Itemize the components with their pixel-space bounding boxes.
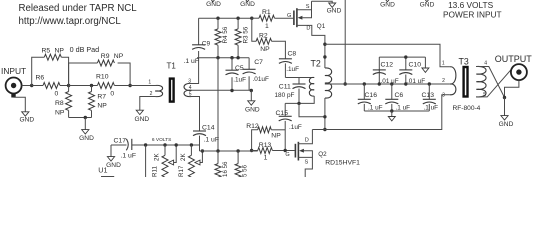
T3 core [464, 67, 468, 97]
wire R8 R7 common [69, 117, 92, 119]
Q1 drain lead [297, 25, 325, 57]
svg-text:.1uF: .1uF [286, 66, 299, 73]
svg-text:T3: T3 [459, 57, 469, 67]
svg-text:C14: C14 [202, 124, 215, 131]
svg-text:2K: 2K [154, 153, 161, 161]
svg-text:6 VOLTS: 6 VOLTS [152, 137, 171, 143]
resistor R4 [216, 17, 219, 20]
svg-text:R8: R8 [55, 100, 64, 107]
svg-text:Q1: Q1 [317, 23, 326, 30]
svg-text:R13: R13 [259, 142, 272, 149]
svg-text:.1uF: .1uF [289, 124, 302, 131]
wire Q1 source to gnd [312, 1, 333, 3]
svg-text:GND: GND [245, 106, 260, 113]
T2 secondary coil [309, 77, 314, 96]
svg-text:16 56: 16 56 [222, 161, 229, 177]
ground C17 [110, 145, 112, 157]
svg-text:0: 0 [55, 91, 59, 98]
svg-text:5 56: 5 56 [242, 164, 249, 177]
node aux vertical [144, 143, 147, 146]
node A input pad [30, 84, 33, 87]
ground pad [82, 130, 89, 134]
svg-text:3: 3 [188, 78, 191, 84]
svg-text:INPUT: INPUT [1, 66, 26, 76]
svg-text:2: 2 [442, 78, 445, 84]
svg-text:T2: T2 [311, 58, 321, 68]
svg-text:R3 56: R3 56 [242, 26, 249, 43]
svg-text:0 dB Pad: 0 dB Pad [70, 45, 100, 54]
T1 secondary coil [184, 83, 192, 90]
wire T1 pin3 up to node3 [192, 58, 199, 84]
svg-text:G: G [285, 152, 289, 158]
wire T1 pin5 down [192, 97, 200, 132]
svg-text:.01 uF: .01 uF [381, 78, 399, 85]
svg-text:C8: C8 [288, 50, 297, 57]
svg-text:C11: C11 [279, 83, 291, 90]
Q2 body arrow [299, 149, 304, 153]
ground C12 C10 [424, 57, 426, 68]
U1 stub [101, 176, 114, 178]
svg-text:NP: NP [55, 109, 65, 116]
svg-text:G: G [287, 13, 291, 19]
trimmer R11 [163, 143, 166, 146]
svg-text:GND: GND [134, 116, 149, 123]
svg-text:D: D [306, 25, 310, 31]
svg-text:3: 3 [442, 92, 445, 98]
svg-text:C7: C7 [254, 59, 263, 66]
svg-text:.1 uF: .1 uF [424, 104, 439, 111]
svg-text:C10: C10 [409, 61, 422, 68]
svg-text:1: 1 [148, 79, 151, 85]
T2 primary coil [324, 57, 326, 68]
svg-text:GND: GND [499, 121, 514, 128]
svg-text:C17: C17 [114, 137, 127, 144]
filter bottom wire [364, 110, 429, 112]
wire 13.6V feed from top [344, 0, 346, 84]
svg-text:R4 56: R4 56 [222, 26, 229, 43]
svg-text:C16: C16 [365, 92, 378, 99]
svg-text:R7: R7 [97, 93, 106, 100]
ground label bus 2 [244, 0, 251, 2]
resistor R15 [236, 149, 239, 152]
svg-text:.1uF: .1uF [233, 77, 246, 84]
ground Q1 source [329, 3, 336, 7]
wire R1 to Q1 gate [275, 17, 294, 19]
svg-text:C13: C13 [422, 92, 435, 99]
resistor R16 [216, 149, 219, 152]
svg-text:.1 uF: .1 uF [368, 104, 383, 111]
node B pad mid [67, 84, 70, 87]
svg-text:C5: C5 [235, 65, 244, 72]
node C7 bottom / center tap gnd [250, 89, 253, 92]
wire Q1 drain rail to T3 pin1 [325, 44, 450, 67]
wire pad to T1 pin1 [130, 85, 155, 87]
wire C8 to T2 top [285, 77, 314, 79]
svg-text:GND: GND [19, 117, 34, 124]
Q1 source lead [297, 1, 312, 10]
svg-text:GND: GND [240, 1, 255, 8]
svg-text:POWER INPUT: POWER INPUT [443, 10, 502, 20]
node3 wire (T1 pin3 / C9) [197, 57, 249, 59]
wire input to node [22, 85, 32, 87]
svg-text:R5: R5 [42, 48, 51, 55]
svg-text:2: 2 [150, 91, 153, 97]
T1 pin 2 wire to gnd [140, 97, 155, 111]
svg-text:R12: R12 [246, 123, 259, 130]
svg-text:R17: R17 [178, 165, 185, 177]
T3 primary coil [450, 67, 456, 84]
svg-text:R6: R6 [36, 74, 45, 81]
wire input shield to gnd [14, 97, 26, 112]
svg-text:1: 1 [442, 61, 445, 67]
svg-text:C6: C6 [395, 92, 404, 99]
wire R13 to Q2 gate [272, 150, 294, 152]
Q2 source lead [298, 157, 312, 177]
wire node3 down to bias bus (long vertical) [217, 58, 219, 151]
svg-text:S: S [306, 4, 310, 10]
T1 primary coil [155, 85, 163, 96]
trimmer R17 [190, 143, 193, 146]
svg-text:R2: R2 [259, 32, 268, 39]
svg-text:4: 4 [189, 85, 192, 91]
svg-text:GND: GND [106, 162, 121, 169]
node bias R1 R2 [250, 17, 253, 20]
ground input shield [22, 112, 29, 116]
svg-text:RD15HVF1: RD15HVF1 [325, 159, 360, 166]
node Q1 drain branch [323, 43, 326, 46]
svg-text:S: S [305, 159, 309, 165]
svg-text:1: 1 [265, 23, 269, 30]
Q2 drain lead [298, 130, 312, 144]
svg-text:GND: GND [206, 1, 221, 8]
svg-text:GND: GND [420, 1, 435, 8]
svg-text:1: 1 [264, 155, 268, 162]
svg-text:0: 0 [110, 91, 114, 98]
svg-text:.01uF: .01uF [253, 76, 269, 83]
T2 center tap wire [325, 83, 345, 85]
ground filter [391, 111, 393, 117]
resistor R3 [236, 17, 239, 20]
node R3 bottom [236, 56, 239, 59]
svg-text:http://www.tapr.org/NCL: http://www.tapr.org/NCL [19, 16, 122, 27]
svg-text:C9: C9 [202, 41, 211, 48]
svg-text:5: 5 [189, 91, 192, 97]
ground center tap [248, 101, 255, 105]
svg-text:Released under TAPR NCL: Released under TAPR NCL [19, 3, 138, 14]
svg-text:NP: NP [271, 133, 281, 140]
ground T1 pin2 [136, 110, 143, 114]
wire step to drain line [299, 103, 325, 116]
T1 core [170, 79, 174, 102]
ground label bus 1 [209, 0, 216, 2]
wire drain bottom rail to T3 pin3 [312, 95, 450, 130]
T3 secondary coil [476, 66, 486, 97]
wire R2 to C8 [272, 41, 286, 59]
wire T1 pin4 [192, 89, 252, 91]
ground label top 4 [423, 0, 430, 2]
svg-text:R10: R10 [96, 73, 109, 80]
T2 secondary bottom wire [285, 96, 314, 103]
svg-text:NP: NP [97, 103, 107, 110]
svg-text:T1: T1 [167, 61, 177, 70]
svg-text:NP: NP [114, 53, 124, 60]
svg-text:R11: R11 [152, 166, 159, 177]
wire pad section2 top legs [69, 63, 98, 86]
wire T3 pin5 cross to output [476, 70, 511, 97]
svg-text:GND: GND [327, 7, 342, 14]
svg-text:U1: U1 [98, 165, 107, 174]
svg-text:R1: R1 [262, 9, 271, 16]
svg-text:GND: GND [380, 1, 395, 8]
filter bus [325, 83, 450, 85]
top bias bus [199, 17, 252, 19]
svg-text:.1 uF: .1 uF [184, 58, 200, 65]
svg-text:GND: GND [79, 135, 94, 142]
svg-text:.1 uF: .1 uF [121, 152, 137, 159]
svg-text:C12: C12 [381, 61, 394, 68]
wire T3 pin4 cross [476, 67, 505, 98]
wire pad section1 top legs [32, 57, 45, 85]
ground label top 3 [384, 0, 391, 2]
svg-text:OUTPUT: OUTPUT [495, 54, 533, 64]
Q1 body arrow [298, 16, 303, 20]
wire to C15 [284, 103, 286, 116]
svg-text:NP: NP [55, 48, 65, 55]
svg-text:.1 uF: .1 uF [396, 104, 411, 111]
output shield path [505, 81, 519, 98]
svg-text:.01 uF: .01 uF [407, 78, 425, 85]
svg-text:4: 4 [484, 61, 487, 67]
bias resistor bus [200, 150, 258, 152]
svg-text:.1 uF: .1 uF [204, 136, 220, 143]
ground output [501, 116, 508, 120]
svg-text:Q2: Q2 [318, 151, 327, 158]
svg-text:NP: NP [260, 46, 270, 53]
wire T2 primary bottom [324, 112, 326, 130]
svg-text:2K: 2K [180, 153, 187, 161]
svg-text:RF-800-4: RF-800-4 [453, 105, 481, 112]
node R4 bottom [216, 56, 219, 59]
svg-text:180 pF: 180 pF [275, 92, 295, 99]
svg-text:D: D [305, 138, 309, 144]
